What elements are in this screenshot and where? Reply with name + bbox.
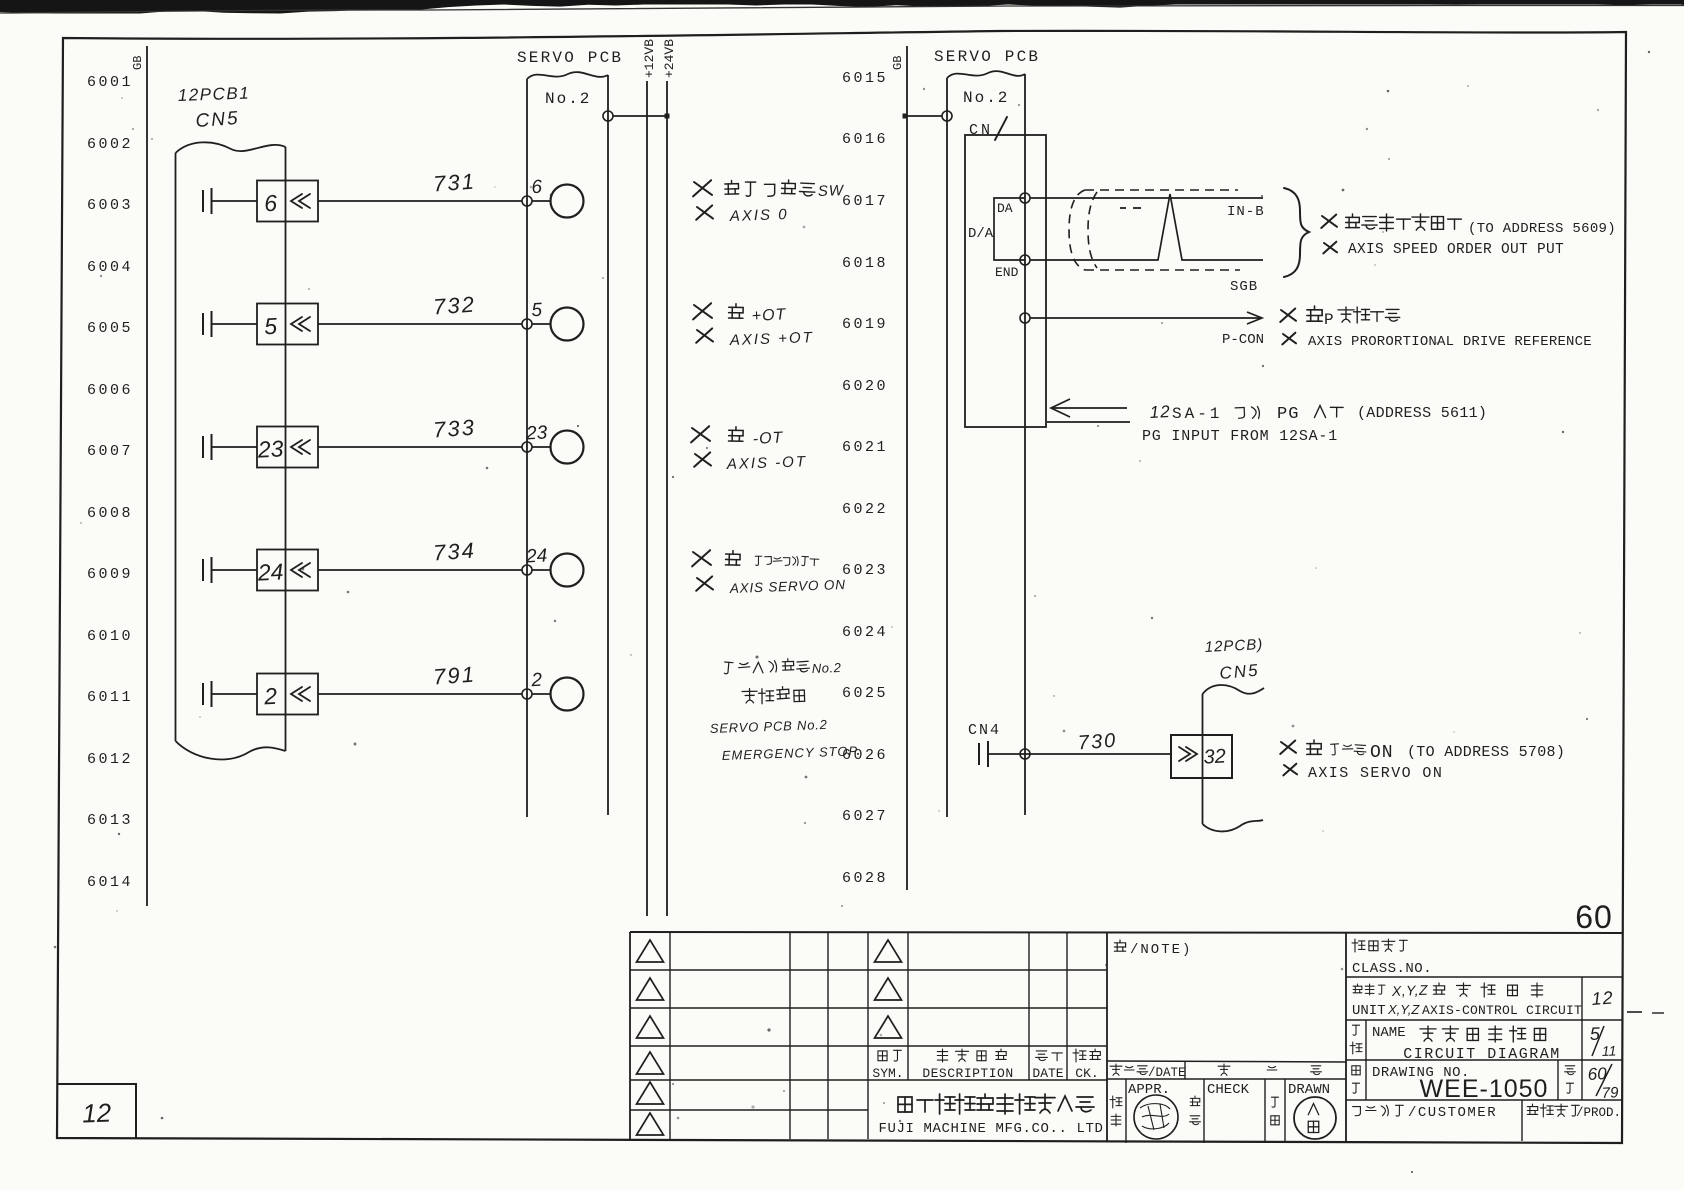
- svg-text:SERVO PCB: SERVO PCB: [517, 49, 623, 67]
- node on servo right edge: [603, 111, 613, 121]
- date header row: [1107, 1061, 1346, 1062]
- svg-text:733: 733: [432, 415, 476, 443]
- svg-text:24: 24: [525, 545, 548, 567]
- svg-text:/CUSTOMER: /CUSTOMER: [1408, 1105, 1497, 1121]
- node END: [1020, 255, 1030, 265]
- chevrons into box 6: [291, 194, 302, 208]
- svg-text:END: END: [995, 265, 1019, 280]
- module SERVO PCB right edge: [607, 75, 609, 815]
- svg-text:12: 12: [82, 1097, 112, 1128]
- annotation: X axis servo on: [1280, 741, 1296, 755]
- pin circle 5: [551, 308, 584, 341]
- node at servo edge pin 23: [522, 442, 532, 452]
- module right SERVO PCB right edge: [1024, 74, 1026, 815]
- svg-text:SA-1: SA-1: [1172, 405, 1222, 423]
- svg-text:732: 732: [432, 292, 476, 320]
- svg-text:24: 24: [256, 558, 284, 585]
- contact CN4: [978, 743, 980, 765]
- right line-number labels 6015-6028: [842, 70, 888, 887]
- node P-CON: [1020, 313, 1030, 323]
- svg-text:2: 2: [530, 670, 543, 692]
- connector 12PCB1 CN5 torn bottom: [176, 741, 286, 759]
- D/A converter bracket: [994, 198, 1025, 260]
- svg-text:5: 5: [264, 313, 278, 340]
- pin circle 2: [551, 678, 584, 711]
- connector box pin 24: [257, 550, 318, 591]
- wire 731: [318, 200, 522, 202]
- wire 732: [318, 323, 522, 325]
- node at servo edge pin 5: [522, 319, 532, 329]
- svg-text:6011: 6011: [87, 689, 133, 706]
- svg-text:SW: SW: [818, 182, 846, 200]
- svg-text:12PCB1: 12PCB1: [177, 83, 250, 105]
- wire contact to box pin 24: [212, 569, 258, 571]
- svg-text:AXIS -OT: AXIS -OT: [726, 453, 808, 473]
- svg-text:6028: 6028: [842, 870, 888, 887]
- wire node to pin circle 5: [532, 323, 551, 325]
- annotation row3: X axis -OT: [691, 426, 710, 442]
- sheet tab 12: [57, 1084, 136, 1138]
- svg-text:6021: 6021: [842, 439, 888, 456]
- wire DA to IN-B: [1030, 197, 1263, 199]
- contact (capacitor symbol) row 791: [202, 683, 204, 705]
- svg-text:AXIS +OT: AXIS +OT: [729, 329, 814, 349]
- revision triangles group2: [875, 940, 902, 962]
- wire GB to servo (right): [905, 115, 942, 117]
- svg-text:GB: GB: [891, 56, 905, 70]
- svg-text:GB: GB: [131, 56, 145, 70]
- svg-text:23: 23: [525, 422, 549, 444]
- wire 730: [988, 753, 1171, 755]
- wire contact to box pin 5: [212, 323, 258, 325]
- svg-text:6015: 6015: [842, 70, 888, 87]
- svg-text:SYM.: SYM.: [872, 1066, 903, 1081]
- svg-text:+12VB: +12VB: [642, 39, 657, 78]
- svg-text:CN4: CN4: [968, 722, 1001, 739]
- svg-text:DA: DA: [997, 201, 1013, 216]
- connector 12PCB CN5 (right) edge: [1202, 694, 1204, 824]
- svg-text:CN5: CN5: [1219, 661, 1261, 683]
- svg-text:SERVO PCB: SERVO PCB: [934, 48, 1040, 66]
- svg-text:12: 12: [1149, 402, 1171, 422]
- svg-text:32: 32: [1203, 745, 1226, 768]
- module right SERVO PCB left edge: [946, 78, 948, 817]
- svg-text:6008: 6008: [87, 505, 133, 522]
- svg-text:X,Y,Z: X,Y,Z: [1387, 1002, 1420, 1017]
- svg-text:5: 5: [531, 300, 543, 322]
- wire servo No.2 to +24VB: [613, 115, 667, 117]
- svg-text:AXIS PRORORTIONAL DRIVE REFERE: AXIS PRORORTIONAL DRIVE REFERENCE: [1308, 334, 1592, 350]
- node at servo edge pin 2: [522, 689, 532, 699]
- svg-text:IN-B: IN-B: [1227, 204, 1265, 220]
- svg-text:(TO ADDRESS 5708): (TO ADDRESS 5708): [1407, 744, 1565, 761]
- node DA: [1020, 193, 1030, 203]
- module right SERVO PCB torn top: [947, 71, 1025, 78]
- brace: [1284, 188, 1309, 277]
- svg-text:+OT: +OT: [751, 306, 787, 325]
- power rail +12VB: [646, 81, 648, 916]
- connector box pin 5: [257, 304, 318, 345]
- svg-text:6012: 6012: [87, 751, 133, 768]
- svg-text:6009: 6009: [87, 566, 133, 583]
- svg-text:DATE: DATE: [1032, 1066, 1063, 1081]
- svg-text:6024: 6024: [842, 624, 888, 641]
- connector box pin 32: [1171, 735, 1232, 778]
- svg-text:6019: 6019: [842, 316, 888, 333]
- wire contact to box pin 2: [212, 693, 258, 695]
- svg-text:CN: CN: [969, 122, 993, 139]
- svg-text:6025: 6025: [842, 685, 888, 702]
- svg-text:X,Y,Z: X,Y,Z: [1391, 982, 1429, 999]
- svg-text:6004: 6004: [87, 259, 133, 276]
- svg-text:CIRCUIT DIAGRAM: CIRCUIT DIAGRAM: [1403, 1046, 1561, 1063]
- svg-text:No.2: No.2: [545, 90, 591, 108]
- wire P-CON: [1030, 317, 1261, 319]
- svg-text:6016: 6016: [842, 131, 888, 148]
- svg-text:6006: 6006: [87, 382, 133, 399]
- wire node to pin circle 23: [532, 446, 551, 448]
- svg-text:6005: 6005: [87, 320, 133, 337]
- svg-text:ON: ON: [1370, 743, 1394, 763]
- svg-text:6017: 6017: [842, 193, 888, 210]
- svg-text:-OT: -OT: [752, 429, 784, 448]
- svg-text:PG: PG: [1277, 405, 1299, 424]
- wire 791: [318, 693, 522, 695]
- annotation block: servo pcb no.2 emergency stop: [724, 662, 733, 674]
- connector box pin 23: [257, 427, 318, 468]
- svg-text:2: 2: [263, 683, 278, 710]
- wire node to pin circle 6: [532, 200, 551, 202]
- revision header SYM/DESCRIPTION/DATE/CK: [878, 1051, 887, 1061]
- wire node to pin circle 24: [532, 569, 551, 571]
- chevrons into box 5: [291, 317, 302, 331]
- stamp row cells: [1125, 1079, 1127, 1143]
- svg-text:SGB: SGB: [1230, 279, 1258, 295]
- svg-text:AXIS 0: AXIS 0: [729, 206, 789, 225]
- module SERVO PCB left edge: [526, 79, 528, 817]
- annotation: X axis speed order output: [1321, 215, 1337, 229]
- svg-text:P: P: [1324, 311, 1334, 329]
- wire contact to box pin 23: [212, 446, 258, 448]
- svg-text:79: 79: [1601, 1084, 1619, 1102]
- svg-text:AXIS-CONTROL CIRCUIT: AXIS-CONTROL CIRCUIT: [1422, 1003, 1582, 1018]
- stamp APPR: [1134, 1095, 1178, 1139]
- svg-text:FUJI MACHINE MFG.CO.. LTD: FUJI MACHINE MFG.CO.. LTD: [878, 1121, 1103, 1137]
- customer row: [1521, 1100, 1523, 1141]
- svg-text:60: 60: [1587, 1064, 1607, 1084]
- svg-text:No.2: No.2: [963, 89, 1009, 107]
- svg-text:PG INPUT FROM 12SA-1: PG INPUT FROM 12SA-1: [1142, 428, 1338, 445]
- annotation: X axis proportional drive reference: [1280, 309, 1296, 323]
- PG input arrows: [1052, 407, 1127, 409]
- svg-text:60: 60: [1575, 899, 1613, 935]
- connector 12PCB1 CN5 right edge: [285, 147, 287, 751]
- svg-text:CHECK: CHECK: [1207, 1082, 1250, 1098]
- module SERVO PCB torn top: [527, 72, 608, 79]
- chevrons into box 23: [291, 440, 302, 454]
- svg-text:NAME: NAME: [1372, 1025, 1406, 1041]
- left line-number labels 6001-6014: [87, 74, 133, 891]
- svg-text:/NOTE): /NOTE): [1130, 942, 1192, 958]
- connector 12PCB1 CN5 torn top: [176, 142, 286, 153]
- contact (capacitor symbol) row 731: [202, 190, 204, 212]
- drawing no box: [1346, 1099, 1622, 1101]
- svg-text:UNIT: UNIT: [1352, 1003, 1386, 1019]
- pin circle 6: [551, 185, 584, 218]
- svg-text:5: 5: [1589, 1024, 1601, 1044]
- svg-text:12: 12: [1591, 988, 1614, 1009]
- node at servo edge pin 24: [522, 565, 532, 575]
- svg-text:P-CON: P-CON: [1222, 332, 1264, 348]
- svg-text:/DATE: /DATE: [1148, 1066, 1186, 1080]
- svg-text:No.2: No.2: [812, 660, 842, 676]
- svg-text:AXIS SPEED ORDER OUT PUT: AXIS SPEED ORDER OUT PUT: [1348, 242, 1564, 258]
- note box: [1114, 940, 1125, 951]
- svg-text:11: 11: [1602, 1043, 1617, 1059]
- svg-text:6002: 6002: [87, 136, 133, 153]
- wire contact to box pin 6: [212, 200, 258, 202]
- wire END to SGB with pulse waveform: [1030, 194, 1263, 260]
- contact (capacitor symbol) row 732: [202, 313, 204, 335]
- chevrons into box 24: [291, 563, 302, 577]
- svg-text:6014: 6014: [87, 874, 133, 891]
- node at right servo left edge: [942, 111, 952, 121]
- svg-text:AXIS SERVO ON: AXIS SERVO ON: [1308, 765, 1443, 782]
- shielded cable dashed outline: [1085, 189, 1238, 191]
- wire 734: [318, 569, 522, 571]
- svg-text:CK.: CK.: [1075, 1066, 1098, 1081]
- class no box: [1345, 933, 1347, 1143]
- svg-text:CN5: CN5: [195, 108, 240, 132]
- junction dot on +24VB: [665, 114, 670, 119]
- svg-text:(ADDRESS 5611): (ADDRESS 5611): [1357, 405, 1487, 422]
- annotation row4: X axis interlock: [692, 550, 711, 566]
- wire node to pin circle 2: [532, 693, 551, 695]
- svg-text:6: 6: [264, 190, 278, 217]
- svg-text:DRAWN: DRAWN: [1288, 1082, 1330, 1098]
- svg-text:730: 730: [1077, 730, 1118, 755]
- svg-text:6020: 6020: [842, 378, 888, 395]
- name box: [1346, 1059, 1622, 1061]
- node wire730: [1020, 749, 1030, 759]
- contact (capacitor symbol) row 733: [202, 436, 204, 458]
- svg-text:/PROD.: /PROD.: [1576, 1106, 1621, 1120]
- node at servo edge pin 6: [522, 196, 532, 206]
- annotation row2: X axis +OT: [693, 303, 712, 319]
- pin circle 24: [551, 554, 584, 587]
- revision triangles group1: [637, 940, 664, 962]
- svg-text:6018: 6018: [842, 255, 888, 272]
- svg-text:6007: 6007: [87, 443, 133, 460]
- svg-text:6027: 6027: [842, 808, 888, 825]
- annotation row1: X axis zero set SW: [693, 180, 712, 196]
- svg-text:D/A: D/A: [968, 226, 994, 242]
- svg-text:(TO ADDRESS 5609): (TO ADDRESS 5609): [1468, 221, 1616, 237]
- chevrons into box 2: [291, 687, 302, 701]
- contact (capacitor symbol) row 734: [202, 559, 204, 581]
- wire 733: [318, 446, 522, 448]
- svg-text:12PCB): 12PCB): [1204, 636, 1263, 656]
- svg-text:DESCRIPTION: DESCRIPTION: [922, 1066, 1013, 1081]
- svg-text:CLASS.NO.: CLASS.NO.: [1352, 961, 1432, 977]
- connector box pin 6: [257, 181, 318, 222]
- pin circle 23: [551, 431, 584, 464]
- svg-text:6010: 6010: [87, 628, 133, 645]
- svg-text:6003: 6003: [87, 197, 133, 214]
- svg-text:23: 23: [256, 435, 284, 462]
- svg-text:6001: 6001: [87, 74, 133, 91]
- svg-text:734: 734: [432, 538, 476, 566]
- title block outline: [630, 932, 1622, 933]
- connector CN1 box: [965, 135, 1046, 427]
- net GB right bus: [906, 46, 908, 890]
- connector box pin 2: [257, 674, 318, 715]
- svg-text:6: 6: [531, 177, 543, 199]
- power rail +24VB: [666, 81, 668, 916]
- stamp DRAWN: [1294, 1097, 1336, 1139]
- svg-text:WEE-1050: WEE-1050: [1420, 1075, 1549, 1103]
- net GB left bus: [146, 46, 148, 906]
- connector 12PCB1 CN5 left edge: [175, 153, 177, 741]
- svg-text:6013: 6013: [87, 812, 133, 829]
- svg-text:6022: 6022: [842, 501, 888, 518]
- company name: [898, 1097, 912, 1112]
- svg-text:+24VB: +24VB: [662, 39, 677, 78]
- svg-text:791: 791: [432, 662, 476, 690]
- svg-text:6023: 6023: [842, 562, 888, 579]
- svg-text:731: 731: [432, 169, 476, 197]
- unit box: [1346, 1019, 1622, 1021]
- torn paper top edge: [0, 0, 1684, 14]
